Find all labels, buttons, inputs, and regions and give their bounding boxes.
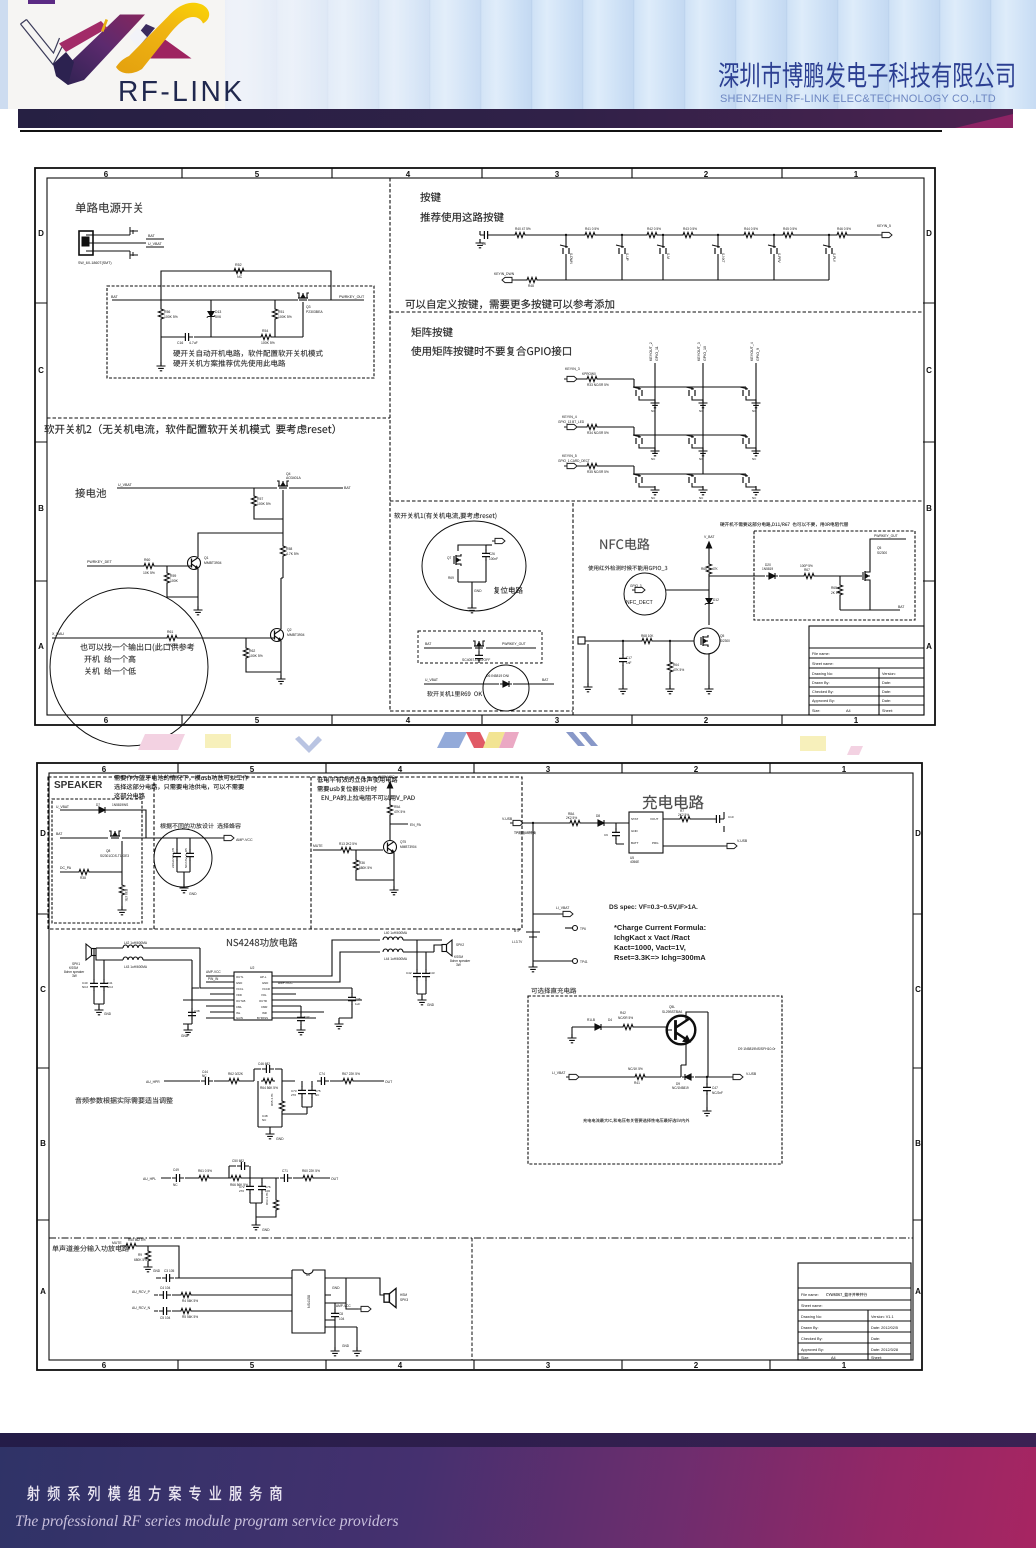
resistor R59 vertical from base [167,566,198,597]
row2 buttons [633,435,642,444]
resistor R65 vertical [839,576,841,610]
svg-text:GND: GND [427,1003,435,1007]
cap C47 [706,1077,708,1111]
svg-text:NC: NC [651,496,656,500]
column labels [649,342,760,361]
svg-text:3W: 3W [456,963,461,967]
bottom wire with C16 and R54 [161,336,303,338]
svg-text:R62: R62 [249,649,255,653]
svg-text:4.7K 5%: 4.7K 5% [286,552,299,556]
svg-text:NC/1K 5%: NC/1K 5% [628,1067,643,1071]
reset ground [471,587,473,608]
optional charge dashed box [528,996,782,1164]
svg-text:C36: C36 [355,997,361,1001]
svg-text:KEYIN_DWN: KEYIN_DWN [494,272,515,276]
svg-text:L43 1uH/600MA: L43 1uH/600MA [124,965,148,969]
svg-text:1nF: 1nF [626,661,632,665]
wire PWRKEY_DET to Q1 base [87,565,191,567]
svg-text:U_VBAT: U_VBAT [118,483,133,487]
svg-text:C8: C8 [339,1312,343,1316]
svg-text:R38: R38 [80,876,86,880]
svg-text:Q5: Q5 [720,634,724,638]
company name [718,58,1036,90]
svg-text:C38: C38 [194,1009,200,1013]
right speaker SPK2 [442,940,452,956]
reset resistor R69 [458,569,486,587]
svg-text:DS spec: VF=0.3~0.5V,IF>1A.: DS spec: VF=0.3~0.5V,IF>1A. [609,904,698,911]
button chain top wire [489,234,879,236]
gnd in opt box [568,1034,577,1043]
svg-text:P2303BEA: P2303BEA [306,310,323,314]
bottom section divider dash-dot [49,1237,913,1239]
svg-text:NC: NC [173,1183,178,1187]
resistor R44 [742,232,756,237]
svg-text:CML: CML [236,1005,242,1009]
mosfet Q4 on battery wire [277,481,289,488]
opt box note [583,1118,689,1122]
svg-text:3: 3 [555,170,560,179]
svg-text:EN_PA: EN_PA [410,823,422,827]
svg-text:2: 2 [704,716,709,725]
cap C8 [335,1303,357,1351]
svg-text:KEYIN_4: KEYIN_4 [562,415,577,419]
capacitor C at left of chain [480,231,492,239]
svg-text:PWRKEY_OUT: PWRKEY_OUT [339,295,365,299]
mono speaker [384,1288,396,1307]
按键 titles [420,192,440,202]
svg-text:V-USB: V-USB [502,817,513,821]
svg-text:AMP-VCC: AMP-VCC [378,775,395,779]
软开关机1 label [394,513,496,520]
svg-text:GPIO_1 CARD_DECT: GPIO_1 CARD_DECT [558,459,590,463]
caps C34 C35 in circle [177,838,190,888]
BAT wire bottom of inner box [840,609,900,611]
cap select circle [154,829,212,887]
svg-text:D: D [38,229,44,238]
svg-text:SC4057-DAC/OFF: SC4057-DAC/OFF [462,658,490,662]
svg-text:NC: NC [315,1093,320,1097]
svg-text:LI_VBAT: LI_VBAT [556,906,569,910]
svg-text:C74: C74 [319,1072,325,1076]
sheet2 inner border frame [49,773,913,1360]
svg-text:NS4158: NS4158 [307,1295,311,1308]
main BAT wire [112,299,364,301]
svg-text:Q2: Q2 [287,628,292,632]
svg-text:C37: C37 [304,1015,310,1019]
transistor Q2 MMBT3904 [271,629,284,642]
svg-text:3W: 3W [72,974,77,978]
svg-text:R60: R60 [144,558,150,562]
inductor L40 top right [383,937,403,940]
svg-text:LI_VBAT: LI_VBAT [552,1071,565,1075]
svg-text:R4 56K 5%: R4 56K 5% [182,1299,198,1303]
svg-text:C43: C43 [429,971,435,975]
svg-text:SI2301CDS-T1-GE3: SI2301CDS-T1-GE3 [100,854,129,858]
buttons S1..S6 hanging [560,234,836,280]
NFC top note [720,522,848,527]
svg-text:NC2: NC2 [107,985,113,989]
svg-text:KEYIN_5: KEYIN_5 [877,224,891,228]
svg-text:Date:: Date: [871,1337,880,1341]
svg-text:R35 NC/0R 5%: R35 NC/0R 5% [587,470,609,474]
svg-text:2K2 5%: 2K2 5% [566,816,577,820]
IC right pin wires and output [272,940,380,1018]
resistor R45 [781,232,795,237]
svg-text:NC/16V_C_D5: NC/16V_C_D5 [184,848,188,868]
svg-text:C3 105: C3 105 [164,1269,175,1273]
svg-text:V-USB: V-USB [746,1072,757,1076]
svg-text:Date: 2012/3/28: Date: 2012/3/28 [871,1348,898,1352]
small dashed box SC4057 [418,631,542,663]
svg-text:S-PLY: S-PLY [832,253,836,263]
gnd under circle [180,884,189,893]
svg-text:GND: GND [631,829,639,833]
svg-text:R36: R36 [359,861,365,865]
svg-text:B: B [915,1139,921,1148]
svg-text:GPIO_13 BT_LED: GPIO_13 BT_LED [558,420,585,424]
svg-text:OUTL: OUTL [236,975,244,979]
resistor R46 [835,232,849,237]
svg-text:BAT: BAT [56,832,62,836]
svg-text:Sheet name:: Sheet name: [812,662,834,666]
svg-text:GAIN: GAIN [236,1016,243,1020]
svg-text:KPROW0: KPROW0 [582,372,596,376]
svg-text:100K 5%: 100K 5% [261,341,275,345]
parallel RC [254,1069,282,1081]
svg-text:SW_6X-1860T(SMT): SW_6X-1860T(SMT) [78,261,112,265]
resistor R43 [681,232,695,237]
svg-text:NC: NC [237,275,243,279]
svg-text:HP-L: HP-L [260,975,267,979]
svg-text:1uF: 1uF [355,1002,360,1006]
purple bar under header [18,109,1013,128]
充电电路 title [643,795,704,809]
gnd left caps [95,1006,104,1015]
svg-text:C4 104: C4 104 [160,1286,171,1290]
svg-text:Size:: Size: [812,709,820,713]
svg-text:R69: R69 [448,576,454,580]
vertical R to gnd row1 [282,1081,307,1127]
svg-text:R45 0 5%: R45 0 5% [783,227,797,231]
svg-text:Q7: Q7 [447,556,451,560]
svg-text:S-NXT: S-NXT [721,253,725,263]
svg-text:Checked By:: Checked By: [812,690,834,694]
svg-text:100K: 100K [170,579,179,583]
svg-text:KEYOUT_4: KEYOUT_4 [750,342,754,361]
svg-text:R59: R59 [170,574,176,578]
RF-LINK text [118,76,244,109]
svg-text:R5 56K 5%: R5 56K 5% [182,1315,198,1319]
接电池 label [75,488,106,498]
svg-text:Version: V1.1: Version: V1.1 [871,1315,894,1319]
svg-text:C49: C49 [173,1168,179,1172]
IC U6 [292,1270,325,1333]
svg-text:STAT: STAT [631,817,638,821]
svg-text:6: 6 [102,1361,107,1370]
resistor R67 [802,573,816,578]
row1 buttons [633,387,642,396]
svg-text:SI2300: SI2300 [877,551,887,555]
svg-text:GPIO_9: GPIO_9 [756,348,760,361]
svg-text:2K 5%: 2K 5% [831,591,841,595]
svg-text:BAT: BAT [148,234,156,238]
transistor Q75 [384,841,397,854]
svg-text:D4: D4 [608,1018,612,1022]
svg-text:Kact=1000, Vact=1V,: Kact=1000, Vact=1V, [614,943,686,952]
svg-text:D8: D8 [596,814,600,818]
Q1 collector to ladder [198,533,283,557]
svg-text:R42 0 5%: R42 0 5% [647,227,661,231]
V_USB flag right [724,843,737,848]
矩阵按键 titles [411,327,452,337]
svg-text:C17: C17 [626,656,632,660]
svg-text:R1LB: R1LB [587,1018,595,1022]
svg-text:A4: A4 [831,1356,836,1360]
svg-text:BAT: BAT [111,295,119,299]
svg-text:47K 5%: 47K 5% [394,810,405,814]
svg-text:R64 56K 5%: R64 56K 5% [260,1086,278,1090]
svg-text:GND: GND [474,589,482,593]
svg-text:A: A [915,1287,921,1296]
svg-text:GPIO_10: GPIO_10 [703,346,707,361]
svg-text:Approved By:: Approved By: [812,699,835,703]
svg-text:220uF/16V_D5: 220uF/16V_D5 [171,847,175,868]
svg-text:R61 0 5%: R61 0 5% [198,1169,212,1173]
svg-text:NC/1N5819: NC/1N5819 [672,1086,689,1090]
可选择直充电路 label [531,988,576,994]
matrix column lines [655,363,756,474]
svg-text:GND: GND [181,1034,189,1038]
NFC mosfet Q5 [694,628,720,654]
svg-text:2: 2 [694,1361,699,1370]
svg-text:GND: GND [342,1344,350,1348]
svg-text:HSM: HSM [400,1293,407,1297]
inductor L44 [383,949,403,952]
diode D9 [682,1074,694,1080]
EN_PA section notes [317,777,415,801]
NFC_DECT circle [624,573,666,615]
svg-text:BAT: BAT [344,486,352,490]
svg-text:C26: C26 [489,552,495,556]
resistor R56 100K [160,300,162,337]
svg-text:U6: U6 [306,1273,310,1277]
charger IC U5 [629,812,663,853]
svg-text:4056E: 4056E [630,860,639,864]
svg-text:3: 3 [546,1361,551,1370]
svg-text:C16: C16 [177,341,183,345]
svg-text:NC2: NC2 [82,985,88,989]
svg-text:B: B [40,1139,46,1148]
svg-text:D12: D12 [713,598,719,602]
svg-text:D: D [926,229,932,238]
svg-text:R67 22K 5%: R67 22K 5% [342,1072,360,1076]
diode D8 [595,820,607,826]
svg-text:U_VBAT: U_VBAT [425,678,438,682]
svg-text:R58: R58 [286,547,292,551]
svg-text:4: 4 [406,716,411,725]
watermark strip [0,726,1036,766]
svg-text:C: C [38,366,44,375]
svg-text:5V6: 5V6 [215,315,221,319]
svg-text:INR: INR [262,1011,267,1015]
svg-text:Q3: Q3 [306,305,311,309]
svg-text:VOUT: VOUT [650,817,659,821]
svg-text:C: C [926,366,932,375]
mosfet Q3 on main wire [297,293,309,300]
charge formula [614,923,706,962]
svg-text:Size:: Size: [801,1356,809,1360]
svg-text:R66: R66 [701,567,707,571]
svg-text:D: D [40,829,46,838]
svg-text:NC/2nF: NC/2nF [712,1091,723,1095]
svg-text:1N5819: 1N5819 [762,567,773,571]
复位电路 label [494,587,523,594]
svg-text:Q8: Q8 [106,849,110,853]
svg-text:Rset=3.3K=> Ichg=300mA: Rset=3.3K=> Ichg=300mA [614,953,706,962]
svg-text:BAT: BAT [898,605,904,609]
svg-text:L40 1uH/600MA: L40 1uH/600MA [384,931,408,935]
svg-text:NC: NC [202,1074,207,1078]
dashed box hard power-on circuit [107,286,374,378]
svg-text:Q75: Q75 [400,840,406,844]
svg-text:6: 6 [104,716,109,725]
svg-text:AU_RCV_N: AU_RCV_N [132,1306,151,1310]
resistor R8A [568,820,582,825]
svg-text:S-M: S-M [666,253,670,259]
svg-text:47K: 47K [712,567,719,571]
svg-text:100K 5%: 100K 5% [249,654,263,658]
wire from NFC node into inner box [709,575,765,577]
NFC inner dashed box [754,531,915,620]
svg-text:C9: C9 [604,833,608,837]
svg-text:AO3401A: AO3401A [286,476,301,480]
caps C42 C43 right [417,940,426,1000]
svg-text:R56: R56 [164,310,170,314]
svg-text:AU_HPL: AU_HPL [143,1177,156,1181]
svg-text:R50 562 5%: R50 562 5% [128,1238,146,1242]
svg-text:680K 5%: 680K 5% [134,1258,147,1262]
svg-text:B: B [38,504,44,513]
svg-text:SPK2: SPK2 [456,943,464,947]
svg-text:S-DWN: S-DWN [569,253,573,264]
caps row2 [250,1178,262,1225]
TP41 test point [573,959,578,964]
sheet1 outer border frame [35,168,935,725]
svg-text:6: 6 [104,170,109,179]
svg-text:GPIO_3: GPIO_3 [630,584,642,588]
resistor R62 vertical [246,638,281,672]
sheet2 outer border frame [37,763,922,1370]
svg-text:PIN_IN: PIN_IN [208,977,219,981]
svg-text:GND: GND [104,1012,112,1016]
svg-text:BAT: BAT [542,678,548,682]
svg-text:U2: U2 [250,966,254,970]
svg-text:TP41: TP41 [580,960,588,964]
svg-text:A: A [40,1287,46,1296]
IC U2 NS4248 [234,972,272,1020]
svg-text:4: 4 [406,170,411,179]
svg-text:2: 2 [704,170,709,179]
svg-text:R44 0 5%: R44 0 5% [744,227,758,231]
svg-text:R60 22K 5%: R60 22K 5% [302,1169,320,1173]
KEYIN_5 output flag [879,232,892,237]
svg-text:MUTE: MUTE [313,844,323,848]
series cap out [317,1077,329,1085]
svg-text:SPEAKER: SPEAKER [54,780,103,791]
svg-text:5: 5 [255,716,260,725]
transistor Q1 MMBT3904 [188,557,201,570]
LI_VBAT flag [560,911,573,916]
NFC 电路 title [600,538,649,550]
resistor R5A vertical [389,796,391,841]
svg-text:104: 104 [339,1317,345,1321]
svg-text:AMP-VCC: AMP-VCC [336,1304,351,1308]
svg-text:A: A [926,642,932,651]
resistor R52 NC top bypass wire [161,271,331,300]
battery BTP [526,928,540,967]
svg-text:MMBT3904: MMBT3904 [204,561,222,565]
NS4248 title [227,938,297,947]
light blue vertical bands [225,0,1036,109]
svg-text:5: 5 [250,765,255,774]
resistor R49 vertical [147,1246,149,1267]
svg-text:S-UP: S-UP [625,253,629,261]
resistor R40 [513,232,527,237]
svg-text:D6 IN5819 DNI: D6 IN5819 DNI [486,674,509,678]
svg-text:VCCL: VCCL [236,987,244,991]
row3 buttons [633,474,642,483]
right of IC resistor R7 [663,819,724,846]
ground Q1 emitter [197,597,199,610]
svg-text:R42: R42 [620,1011,626,1015]
resistor R41 [583,232,597,237]
inner dashed box speaker circuit [52,799,142,923]
svg-text:R62 0/22K: R62 0/22K [228,1072,244,1076]
svg-text:R43 0 5%: R43 0 5% [683,227,697,231]
svg-text:GND: GND [153,1269,161,1273]
svg-text:BTP: BTP [514,929,520,933]
svg-text:R51: R51 [278,310,284,314]
svg-text:Q5L: Q5L [669,1005,675,1009]
svg-text:R64: R64 [673,663,679,667]
svg-text:Date:: Date: [882,699,891,703]
title block sheet2 [798,1263,911,1360]
svg-text:OUTLB: OUTLB [236,999,245,1003]
svg-text:GND: GND [276,1137,284,1141]
svg-text:AMP-VCC: AMP-VCC [278,981,293,985]
svg-text:R48: R48 [528,284,534,288]
svg-text:GND: GND [236,981,242,985]
svg-text:D13: D13 [215,310,221,314]
svg-text:1N5819WS: 1N5819WS [112,803,128,807]
svg-text:NFC_DECT: NFC_DECT [626,600,653,606]
svg-text:100K 5%: 100K 5% [257,502,271,506]
caps to gnd [302,1081,312,1107]
cap C9 under diode [616,823,624,844]
svg-text:R52: R52 [235,263,242,267]
svg-text:2: 2 [694,765,699,774]
svg-text:Q5: Q5 [877,546,881,550]
resistor R41 [633,1074,647,1079]
svg-text:3: 3 [555,716,560,725]
svg-text:R46 0 5%: R46 0 5% [837,227,851,231]
Q2 collector up to R58 [281,578,283,629]
svg-text:Si2300: Si2300 [720,639,730,643]
svg-text:Checked By:: Checked By: [801,1337,823,1341]
svg-text:C47: C47 [712,1086,718,1090]
svg-text:KEYOUT_2: KEYOUT_2 [649,342,653,361]
inductor L43 [96,955,192,960]
